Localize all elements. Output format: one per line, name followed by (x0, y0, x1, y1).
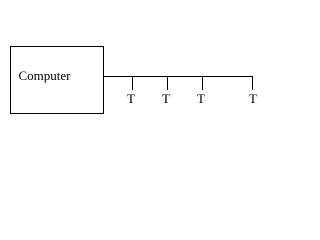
drop wire 2 (167, 76, 168, 90)
terminal label T4 (246, 92, 260, 105)
bus wire (104, 76, 253, 77)
terminal label T1 (124, 92, 138, 105)
drop wire 4 (252, 76, 253, 90)
label Computer (19, 69, 71, 82)
computer box (10, 46, 104, 114)
terminal label T2 (159, 92, 173, 105)
drop wire 3 (202, 76, 203, 90)
terminal label T3 (194, 92, 208, 105)
drop wire 1 (132, 76, 133, 90)
